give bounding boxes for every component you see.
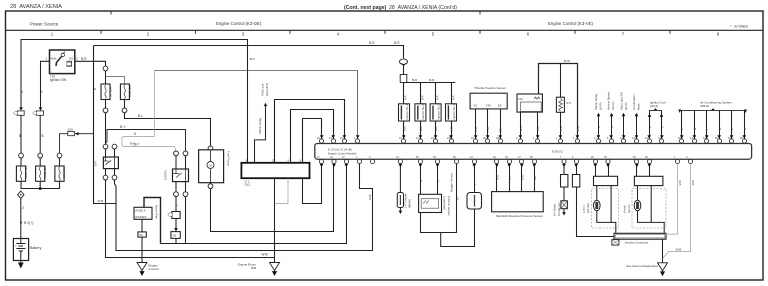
svg-text:BR: BR [499, 128, 503, 132]
svg-text:B-Y: B-Y [120, 125, 126, 129]
small fuse on injector feed [400, 75, 407, 83]
svg-text:AM1: AM1 [51, 57, 58, 61]
o2 sensor [474, 164, 476, 193]
svg-text:B: B [743, 128, 747, 130]
NF box [134, 207, 152, 219]
MAP sensor [496, 164, 498, 192]
svg-text:W-B: W-B [691, 180, 695, 186]
fuel pump bottom pin [210, 183, 212, 185]
arrow into fuse1 [19, 107, 23, 110]
bus3 continues: ground wire drop at x=274.5 [274, 181, 276, 263]
svg-text:Injector No.4: Injector No.4 [452, 103, 456, 119]
condenser chain pin 564 [563, 164, 565, 175]
svg-text:EFI: EFI [94, 161, 98, 166]
o2 bottom loop [441, 209, 475, 247]
branch at y=133.7 to fuse F3 / link3 [75, 133, 94, 135]
svg-text:G-B: G-B [519, 126, 523, 131]
svg-text:L-R: L-R [536, 126, 540, 131]
injector rail [404, 82, 456, 84]
injector no.2 [415, 103, 426, 121]
svg-text:R-G: R-G [495, 175, 499, 180]
svg-text:W-B: W-B [676, 248, 682, 252]
svg-text:W: W [730, 127, 734, 130]
svg-text:B-R: B-R [412, 78, 418, 82]
battery + label [20, 222, 22, 224]
svg-text:L-Y: L-Y [508, 176, 512, 180]
svg-text:Condenser: Condenser [557, 202, 561, 216]
svg-text:B-W: B-W [576, 125, 580, 131]
svg-text:B-W: B-W [559, 125, 563, 131]
fusible link 2 [36, 166, 45, 181]
fuse F2 [37, 111, 44, 115]
svg-text:Starter Relay: Starter Relay [258, 117, 262, 134]
svg-text:E 5/6 (C): E 5/6 (C) [552, 150, 563, 154]
svg-text:Position Sensor: Position Sensor [447, 196, 451, 216]
header section tick 1 [110, 11, 112, 15]
header band bottom line [6, 29, 764, 31]
svg-text:Starter Relay: Starter Relay [594, 93, 598, 110]
wires below link boxes [105, 100, 107, 109]
fuel pump wire to ECU pin 333.5 [211, 164, 334, 232]
svg-text:Oxygen Sensor: Oxygen Sensor [450, 173, 454, 192]
wire W3: ignition AM down to fuse2 [41, 61, 50, 108]
svg-text:Crankshaft: Crankshaft [443, 196, 447, 210]
svg-text:Manifold Absolute Pressure Sen: Manifold Absolute Pressure Sensor [496, 214, 543, 218]
gray pin 690.5 wire to ground [663, 164, 691, 259]
svg-text:B-R: B-R [452, 95, 456, 100]
knock sensor assembly 1 [595, 164, 597, 177]
header section tick 2 [479, 11, 481, 15]
ignition switch box [50, 50, 75, 74]
svg-text:ST 30A: ST 30A [109, 87, 113, 97]
svg-text:2: 2 [22, 206, 24, 210]
svg-text:B: B [93, 88, 97, 90]
oval connector on drop x=403.5 [400, 59, 408, 65]
fusible link box B (on 124.5) [120, 84, 129, 100]
junction bus below links [21, 181, 60, 188]
relay2 bottom pins [175, 182, 177, 192]
arrow-step wire into DLC [255, 107, 266, 163]
svg-text:* : w/ Shield: * : w/ Shield [730, 25, 748, 29]
DLC bottom pins [274, 178, 276, 180]
svg-text:Power Source: Power Source [30, 21, 59, 26]
svg-text:B-R: B-R [369, 41, 375, 45]
wire F3 to fusible link 3 [60, 134, 68, 154]
svg-text:Throttle Position Sensor: Throttle Position Sensor [474, 86, 506, 90]
svg-text:15A: 15A [68, 128, 73, 132]
relay1 bottom pins [105, 169, 107, 176]
svg-text:Ground: Ground [149, 267, 159, 271]
svg-text:#30: #30 [434, 126, 438, 131]
svg-text:Noise Filter: Noise Filter [155, 205, 159, 219]
wire to battery [20, 198, 22, 238]
svg-text:B-R: B-R [81, 57, 87, 61]
svg-text:L-W: L-W [474, 127, 478, 132]
fusible link 3 [55, 166, 64, 181]
relay1 right pin down -> bus2 [115, 181, 373, 251]
svg-text:A 6 Noise: A 6 Noise [552, 204, 556, 216]
fuse F1 [17, 111, 24, 115]
injector drops [403, 83, 405, 104]
svg-text:B: B [597, 126, 601, 128]
svg-text:B-O: B-O [250, 57, 256, 61]
arrow into fuse2 [39, 107, 43, 110]
wire seg [20, 159, 22, 166]
svg-text:AM2 30A: AM2 30A [128, 85, 132, 97]
svg-text:G: G [419, 180, 423, 182]
svg-text:B-L: B-L [138, 114, 143, 118]
ECU pin u-loop 359.5-372.5 below bar [360, 162, 373, 251]
svg-text:W: W [39, 90, 43, 93]
svg-text:Battery: Battery [30, 246, 42, 250]
DLC loops to ECU top pins [275, 100, 345, 163]
X-box below junction bar left [612, 240, 619, 246]
extra wire color labels [20, 57, 747, 206]
svg-text:W-B: W-B [678, 180, 682, 186]
pin 400.4 component [399, 164, 401, 193]
fusible link box A (on 105.5) [101, 84, 110, 100]
svg-text:B-R: B-R [421, 95, 425, 100]
battery [13, 239, 28, 261]
svg-text:B-W: B-W [564, 59, 570, 63]
wire fuse1->relay1 [105, 113, 107, 144]
svg-text:(G-W): (G-W) [624, 102, 628, 110]
svg-text:B: B [19, 134, 21, 138]
gray pin 677.5 wire [666, 164, 678, 235]
svg-text:28-7: 28-7 [133, 143, 140, 147]
relay2 right pin down to NF line [185, 197, 187, 243]
svg-text:B: B [42, 134, 44, 138]
svg-text:(MAIN): (MAIN) [408, 199, 412, 208]
NF line to ECU pin 346.5 [161, 164, 347, 244]
branch to link box 2 [106, 77, 125, 85]
injector outlet wires [403, 121, 405, 139]
svg-text:VTA: VTA [486, 104, 491, 108]
dashed shield box 1 [592, 189, 619, 229]
svg-text:AM2 30A: AM2 30A [43, 166, 47, 178]
svg-text:R 5: R 5 [567, 101, 572, 105]
svg-text:(J/B-R): (J/B-R) [700, 104, 710, 108]
svg-text:Vehicle Speed: Vehicle Speed [607, 92, 611, 110]
svg-text:(FILTER): (FILTER) [135, 215, 146, 219]
svg-text:W-B: W-B [368, 194, 372, 200]
relay1 box [103, 157, 118, 169]
svg-text:IG1: IG1 [69, 57, 74, 61]
svg-text:V: V [610, 126, 614, 128]
svg-text:Stop Light SW: Stop Light SW [619, 92, 623, 110]
svg-text:Injector No.1: Injector No.1 [405, 103, 409, 119]
svg-text:#40: #40 [450, 126, 454, 131]
svg-text:C2: C2 [139, 233, 143, 237]
dashed shield box 2 [632, 189, 666, 229]
relay2 box [173, 169, 189, 182]
svg-text:Ignition SW: Ignition SW [50, 78, 66, 82]
injector no.4 [446, 103, 457, 121]
svg-text:ISC: ISC [519, 97, 524, 101]
svg-text:B-R: B-R [436, 95, 440, 100]
NF bottom pin chain [141, 219, 143, 232]
svg-text:(Cont. next page): (Cont. next page) [344, 5, 387, 11]
svg-text:W-B: W-B [98, 199, 104, 203]
svg-text:(W-R): (W-R) [598, 103, 602, 110]
svg-text:Knock: Knock [622, 205, 626, 213]
pin 576 chain [576, 164, 578, 175]
wire relay1 left pin up-over to relay2 right pin [106, 130, 186, 151]
svg-text:C/OPN: C/OPN [164, 170, 168, 180]
ignition coil pair [649, 110, 651, 138]
svg-text:BR: BR [533, 176, 537, 180]
NF loop over box [144, 198, 161, 244]
feed rail y=63.5 [539, 64, 578, 139]
battery diamond connector [18, 191, 24, 198]
wire W5 from IG to x=105.5 [75, 61, 106, 66]
wire below F1 [20, 115, 22, 153]
svg-text:28 AVANZA / XENIA (Cont’d): 28 AVANZA / XENIA (Cont’d) [389, 5, 457, 11]
relay2 left chain: fuse + connector box [175, 197, 177, 211]
long wire 154.5 -> ECU pin 357.5 [155, 71, 358, 141]
connector on W5 [103, 66, 108, 71]
connector on wire2 [38, 153, 43, 158]
svg-text:Y: Y [705, 128, 709, 130]
svg-text:G: G [693, 128, 697, 130]
svg-text:#10: #10 [402, 126, 406, 131]
wire below F2 [39, 115, 41, 153]
svg-text:Y-G: Y-G [486, 127, 490, 132]
svg-text:B-R: B-R [404, 95, 408, 100]
svg-text:B 2(+): B 2(+) [24, 221, 33, 225]
svg-text:E2: E2 [498, 104, 502, 108]
wire seg [39, 159, 41, 166]
svg-text:W-B: W-B [262, 253, 268, 257]
IG2 step contact [66, 61, 71, 66]
fuel pump box [199, 150, 224, 183]
svg-text:R: R [436, 180, 440, 182]
svg-text:Junction Connector: Junction Connector [624, 240, 648, 244]
connector on wire1 [19, 153, 24, 158]
ruler ticks and column numbers [101, 30, 670, 34]
svg-text:Fuel Pump: Fuel Pump [227, 151, 231, 166]
svg-text:ECU (A/T): ECU (A/T) [265, 83, 269, 96]
svg-text:Sensor: Sensor [627, 204, 631, 213]
crank bottom loop [421, 164, 457, 233]
injector no.3 [430, 103, 441, 121]
svg-text:Meter: Meter [637, 103, 641, 110]
svg-text:Injector No.3: Injector No.3 [436, 103, 440, 119]
svg-text:R: R [718, 128, 722, 130]
svg-text:(K3-VE): (K3-VE) [586, 203, 590, 213]
svg-text:28 AVANZA / XENIA: 28 AVANZA / XENIA [10, 4, 62, 10]
ground bottom-left [137, 263, 147, 277]
svg-text:Combination: Combination [632, 94, 636, 110]
ground wire right [662, 239, 664, 263]
crank sensor [420, 164, 422, 195]
injector no.1 [399, 103, 410, 121]
svg-text:#20: #20 [419, 126, 423, 131]
relay1 left pin down -> bus3 [106, 181, 275, 258]
svg-text:G-O: G-O [520, 174, 524, 180]
svg-text:C8: C8 [172, 234, 176, 238]
svg-text:B-R: B-R [394, 41, 400, 45]
svg-text:R/B: R/B [251, 266, 256, 270]
svg-text:ACM2.5: ACM2.5 [135, 208, 146, 212]
wire W2: fuse1 top up and right to DLC (x=247.5) [21, 40, 248, 163]
junction connector bar [614, 233, 666, 239]
svg-text:(3S-2): (3S-2) [650, 104, 658, 108]
svg-text:VC: VC [474, 104, 478, 108]
svg-text:Sensor: Sensor [611, 101, 615, 110]
svg-text:Engine Control (K3-VE): Engine Control (K3-VE) [548, 21, 593, 26]
fusible link 1 [16, 166, 25, 181]
svg-text:Engine Control (K3-DE): Engine Control (K3-DE) [216, 21, 262, 26]
wire fuse2 -> fuel pump feed (y=118.5) [125, 113, 211, 146]
svg-text:DLC: DLC [245, 183, 252, 187]
svg-text:W: W [455, 197, 459, 200]
svg-text:EFI 15A: EFI 15A [62, 167, 66, 178]
svg-text:B-R: B-R [429, 78, 435, 82]
knock sensor assembly 2 [636, 164, 638, 177]
svg-text:Injector No.2: Injector No.2 [421, 103, 425, 119]
svg-text:1 C7 Heater: 1 C7 Heater [403, 193, 407, 208]
svg-text:See How to Diagnostics: See How to Diagnostics [626, 264, 658, 268]
switch lever [56, 56, 63, 67]
svg-text:8: 8 [134, 132, 136, 136]
resistor drop [560, 64, 562, 98]
svg-text:W: W [20, 90, 24, 93]
svg-text:AM1 40A: AM1 40A [24, 166, 28, 178]
ruler column numbers [51, 32, 720, 37]
svg-text:1 P/I 1: 1 P/I 1 [582, 204, 586, 213]
battery ground arrow [20, 261, 22, 265]
